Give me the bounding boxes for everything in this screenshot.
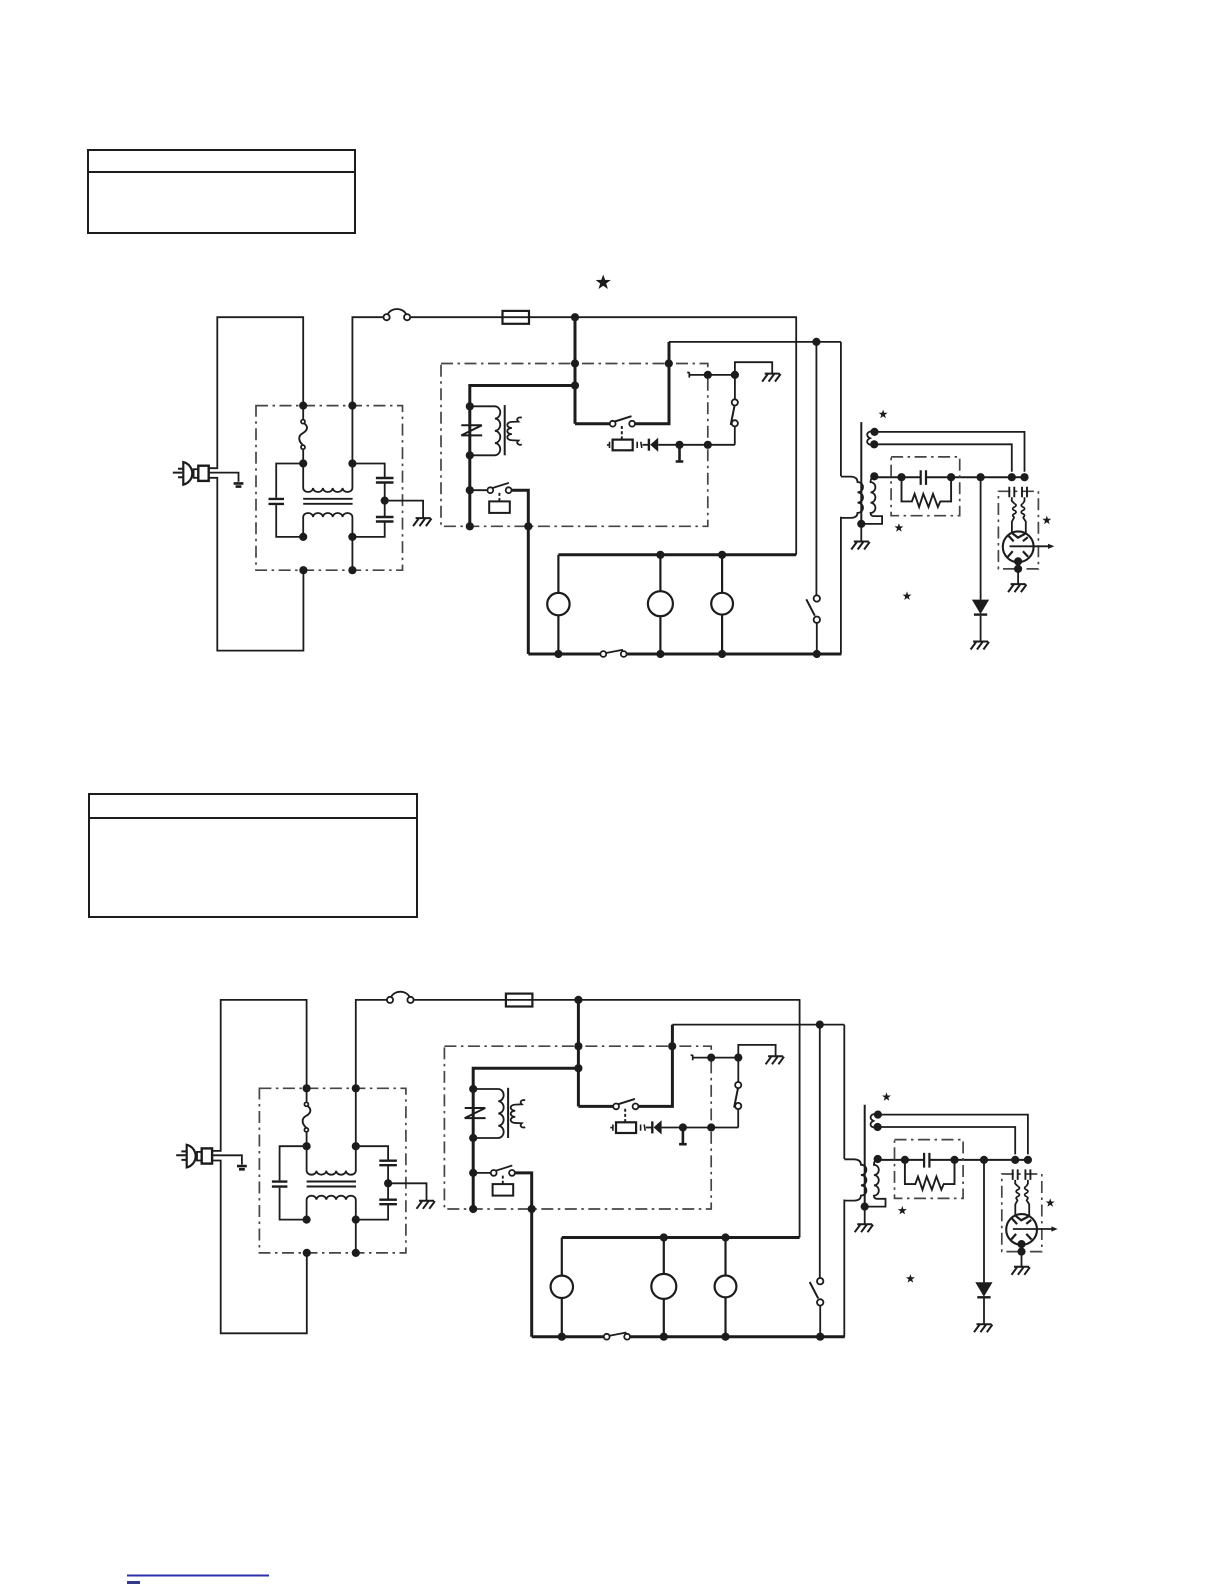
node door switch bottom (lower diagram) <box>816 1333 824 1341</box>
wire hot feed drop (lower diagram) <box>577 1000 580 1107</box>
wire interlock switch out <box>512 490 529 654</box>
node magnetron FA terminal <box>1020 473 1028 481</box>
AC plug body (lower diagram) <box>187 1145 196 1168</box>
turntable motor stub bottom <box>659 616 661 654</box>
node between C2 C3 <box>381 497 389 505</box>
low voltage transformer T2 primary <box>470 406 500 455</box>
node lamp1 bottom (lower diagram) <box>558 1333 566 1341</box>
fan motor stub top (lower diagram) <box>724 1238 726 1276</box>
node control box bottom L (lower diagram) <box>469 1205 477 1213</box>
wire cap midpoint to ground (lower diagram) <box>388 1183 426 1200</box>
magnetron antenna arrow <box>1010 544 1055 549</box>
feedthrough capacitor right <box>1022 487 1027 498</box>
node magnetron FA terminal (lower diagram) <box>1024 1156 1032 1164</box>
wire diode to monitor switch (lower diagram) <box>662 1127 739 1129</box>
wire lamp feed riser (lower diagram) <box>799 1000 801 1238</box>
HV transformer T1 core (lower diagram) <box>864 1105 866 1208</box>
cook switch contacts (lower diagram) <box>604 1333 630 1340</box>
connector at coil left (lower diagram) <box>610 1125 613 1131</box>
wire interlock terminal run (lower diagram) <box>693 1057 739 1059</box>
interlock relay RY1 coil box <box>489 501 510 513</box>
fan motor stub top <box>721 555 723 593</box>
low voltage transformer T2 primary (lower diagram) <box>473 1089 503 1138</box>
power relay RY2 contacts <box>610 416 635 426</box>
fan motor <box>711 593 733 615</box>
wire monitor switch to line <box>734 427 736 445</box>
star mark below cap box (lower diagram) <box>898 1206 907 1215</box>
node main line at relay tap (lower diagram) <box>574 996 582 1004</box>
connector interlock terminal <box>687 372 689 377</box>
node control box top R (lower diagram) <box>668 1042 676 1050</box>
AC plug prongs <box>173 469 184 478</box>
node interlock crossing <box>704 371 712 379</box>
node lamp2 top (lower diagram) <box>660 1233 668 1241</box>
wire coil to diode (lower diagram) <box>646 1127 652 1129</box>
wire core to ground (lower diagram) <box>864 1207 866 1224</box>
node choke top-right (lower diagram) <box>352 1142 360 1150</box>
thermal cutoff TCO (lower diagram) <box>303 1102 311 1132</box>
feedthrough capacitor left <box>1009 487 1014 498</box>
node interlock junction <box>731 371 739 379</box>
star mark near diode (lower diagram) <box>906 1274 915 1283</box>
wire lamp feed bus <box>558 553 796 556</box>
node interlock junction (lower diagram) <box>734 1054 742 1062</box>
line filter choke L1 core (lower diagram) <box>307 1182 356 1187</box>
line filter choke L1 top winding (lower diagram) <box>307 1146 356 1175</box>
connector at coil right <box>637 442 642 448</box>
HV transformer T1 secondary <box>861 477 882 524</box>
node filter input top <box>299 402 307 410</box>
star mark near T1 (lower diagram) <box>882 1092 891 1101</box>
capacitor C2 C3 branch wires <box>352 464 384 537</box>
wire LVT feed <box>470 386 575 527</box>
door sensing switch <box>806 595 820 623</box>
HV diode D2 <box>972 600 989 615</box>
wire to interlock relay switch <box>470 489 488 491</box>
wire fuseholder to corner <box>529 316 797 318</box>
door sensing switch (lower diagram) <box>810 1278 824 1306</box>
node between C2 C3 (lower diagram) <box>384 1179 392 1187</box>
wire HV diode drop (lower diagram) <box>983 1160 985 1282</box>
node monitor line crossing (lower diagram) <box>707 1123 715 1131</box>
interlock relay RY1 coil box (lower diagram) <box>493 1184 514 1196</box>
fan motor stub bottom <box>721 615 723 654</box>
magnetron antenna arrow (lower diagram) <box>1013 1226 1058 1231</box>
HV transformer T1 filament winding <box>867 431 874 444</box>
wire HV line left (lower diagram) <box>878 1159 1028 1161</box>
ground at HV transformer <box>851 542 869 550</box>
varistor VRS1 <box>461 425 482 435</box>
node magnetron F terminal (lower diagram) <box>1011 1156 1019 1164</box>
AC plug neck <box>194 469 199 478</box>
wire HV primary drop (lower diagram) <box>843 1025 845 1159</box>
wire filament line 1 <box>875 432 1025 472</box>
node filament lead 2 <box>870 440 878 448</box>
node filter input bottom <box>299 566 307 574</box>
line filter choke L1 top winding <box>303 464 352 493</box>
node control box bottom R <box>524 522 532 530</box>
node door switch tap <box>812 338 820 346</box>
node lamp3 top <box>718 551 726 559</box>
wire cutoff to choke node <box>302 449 304 463</box>
ground at HV diode <box>971 642 989 650</box>
node LVT primary top <box>466 402 474 410</box>
wire plug neutral lead to loop <box>209 478 304 651</box>
node control box bottom L <box>466 522 474 530</box>
wire plug earth lead <box>209 473 239 482</box>
node HV cap right (lower diagram) <box>950 1156 958 1164</box>
capacitor C1 plates (lower diagram) <box>272 1182 288 1187</box>
wire fuse to fuseholder (lower diagram) <box>414 999 506 1001</box>
turntable motor stub top (lower diagram) <box>663 1238 665 1274</box>
capacitor C1 branch wires (lower diagram) <box>280 1146 307 1219</box>
star mark below cap box <box>894 523 903 532</box>
capacitor C2 C3 branch wires (lower diagram) <box>356 1146 388 1219</box>
wire into chokes <box>1012 497 1025 503</box>
power relay RY2 link <box>621 426 623 439</box>
wire magnetron to ground <box>1017 561 1019 584</box>
interlock relay RY1 link (lower diagram) <box>502 1176 504 1184</box>
wire interlock terminal run <box>689 374 735 376</box>
star mark near magnetron (lower diagram) <box>1046 1198 1055 1207</box>
wire interlock to ground <box>735 362 772 375</box>
AC plug neck (lower diagram) <box>197 1152 202 1161</box>
bleeder resistor R1 (lower diagram) <box>905 1160 955 1190</box>
node choke top-left (lower diagram) <box>303 1142 311 1150</box>
wire plug earth lead (lower diagram) <box>212 1155 242 1164</box>
wire hot feed drop <box>574 317 577 424</box>
star mark near diode <box>903 591 912 600</box>
fuse holder box (lower diagram) <box>506 994 533 1007</box>
wire filament line 2 <box>874 444 1012 471</box>
filament choke right (lower diagram) <box>1025 1186 1028 1200</box>
feedthrough capacitor left (lower diagram) <box>1013 1169 1018 1180</box>
filament choke left (lower diagram) <box>1016 1186 1019 1200</box>
node control box top L <box>571 359 579 367</box>
node filament lead 2 (lower diagram) <box>874 1123 882 1131</box>
HV transformer T1 primary (lower diagram) <box>844 1159 866 1200</box>
node lamp3 bottom <box>718 650 726 658</box>
node hot at LVT tap <box>571 381 579 389</box>
node magnetron box edge <box>1014 565 1022 573</box>
noise filter unit box <box>256 406 403 571</box>
node lamp2 bottom <box>656 650 664 658</box>
earth ground at plug <box>234 483 244 486</box>
power relay RY2 coil box <box>613 440 633 451</box>
HV transformer T1 secondary (lower diagram) <box>865 1160 886 1207</box>
wire hot to relay contacts <box>575 422 610 425</box>
wire door switch to bus <box>816 623 818 654</box>
node choke top-left <box>299 459 307 467</box>
wire HV diode to ground (lower diagram) <box>983 1299 985 1325</box>
node filter neutral top <box>348 402 356 410</box>
node HV cap right <box>947 473 955 481</box>
temperature probe <box>676 445 684 462</box>
wire chokes to magnetron <box>1012 517 1026 533</box>
title box lower diagram <box>89 794 417 917</box>
capacitor C1 plates <box>269 499 285 504</box>
node filament lead 1 <box>870 428 878 436</box>
node lamp2 bottom (lower diagram) <box>660 1333 668 1341</box>
AC plug prongs (lower diagram) <box>176 1151 187 1160</box>
capacitor C3 plates (lower diagram) <box>379 1200 397 1205</box>
node temperature probe tap <box>675 441 683 449</box>
wire bottom bus right <box>627 653 842 656</box>
node magnetron F terminal <box>1008 473 1016 481</box>
magnetron anode vanes <box>1008 536 1028 557</box>
bleeder resistor R1 <box>902 477 952 507</box>
capacitor C2 plates <box>376 478 394 483</box>
low voltage transformer T2 core (lower diagram) <box>507 1088 509 1138</box>
node LVT primary top (lower diagram) <box>469 1085 477 1093</box>
wire HV primary return (lower diagram) <box>843 1200 845 1337</box>
connector at coil right (lower diagram) <box>641 1125 646 1131</box>
wire to interlock relay switch (lower diagram) <box>473 1172 491 1174</box>
wire fuse to fuseholder <box>410 316 502 318</box>
wire bottom bus right (lower diagram) <box>630 1335 845 1338</box>
capacitor C1 branch wires <box>276 464 303 537</box>
oven lamp <box>547 593 569 615</box>
connector at coil left <box>607 442 610 448</box>
noise filter unit box (lower diagram) <box>259 1088 406 1253</box>
footer link line <box>127 1575 269 1577</box>
line filter choke L1 core <box>303 499 352 504</box>
wire interlock switch out (lower diagram) <box>515 1173 532 1337</box>
fuse F1 (lower diagram) <box>387 992 414 1003</box>
star mark main (upper diagram) <box>596 275 611 290</box>
node lamp2 top <box>656 551 664 559</box>
wire magnetron to ground (lower diagram) <box>1021 1244 1023 1267</box>
ground at HV diode (lower diagram) <box>974 1324 992 1332</box>
node filter neutral top (lower diagram) <box>352 1084 360 1092</box>
power relay RY2 contacts (lower diagram) <box>613 1099 638 1109</box>
oven lamp (lower diagram) <box>551 1276 573 1298</box>
filament choke left <box>1013 504 1016 517</box>
connector interlock terminal (lower diagram) <box>691 1055 693 1060</box>
turntable motor stub top <box>659 555 661 591</box>
capacitor C2 plates (lower diagram) <box>379 1161 397 1166</box>
node hot at LVT tap (lower diagram) <box>574 1064 582 1072</box>
node HV secondary ground <box>857 520 865 528</box>
wire chokes to magnetron (lower diagram) <box>1015 1200 1029 1216</box>
node LVT primary bottom <box>466 451 474 459</box>
diode D1 <box>649 438 658 452</box>
node monitor line crossing <box>704 441 712 449</box>
HV capacitor plates <box>921 470 926 485</box>
node filter input bottom (lower diagram) <box>303 1249 311 1257</box>
wire filament line 1 (lower diagram) <box>878 1115 1028 1155</box>
wire lamp feed riser <box>795 317 797 555</box>
wire interlock to ground (lower diagram) <box>738 1045 775 1058</box>
footer text fragment <box>127 1581 140 1584</box>
node HV diode tap <box>977 473 985 481</box>
earth ground at plug (lower diagram) <box>237 1166 247 1169</box>
control unit box <box>441 364 708 527</box>
power relay RY2 coil box (lower diagram) <box>616 1122 636 1133</box>
line filter choke L1 bottom winding <box>303 513 352 537</box>
wire lamp feed bus (lower diagram) <box>562 1236 800 1239</box>
node control box top R <box>665 359 673 367</box>
node control box bottom R (lower diagram) <box>528 1205 536 1213</box>
ground at interlock (lower diagram) <box>766 1056 784 1064</box>
star mark near T1 <box>879 410 888 419</box>
wire HV feed top run <box>669 341 841 343</box>
oven lamp stub top (lower diagram) <box>561 1238 563 1276</box>
magnetron cathode (lower diagram) <box>1016 1216 1029 1220</box>
node choke bottom-left (lower diagram) <box>303 1216 311 1224</box>
HV capacitor unit box (lower diagram) <box>895 1140 964 1199</box>
ground at magnetron (lower diagram) <box>1012 1267 1030 1275</box>
node control box top L (lower diagram) <box>574 1042 582 1050</box>
low voltage transformer T2 core <box>504 405 506 455</box>
wire door switch to bus (lower diagram) <box>819 1306 821 1337</box>
wire HV diode drop <box>980 477 982 599</box>
node filter neutral bottom <box>348 566 356 574</box>
feedthrough capacitor right (lower diagram) <box>1025 1169 1030 1180</box>
wire LVT feed (lower diagram) <box>473 1068 578 1209</box>
node filter input top (lower diagram) <box>303 1084 311 1092</box>
node filament lead 1 (lower diagram) <box>874 1111 882 1119</box>
HV transformer T1 primary <box>841 477 863 518</box>
wire door switch drop <box>815 342 817 595</box>
wire into chokes (lower diagram) <box>1015 1180 1028 1186</box>
node choke bottom-right <box>348 533 356 541</box>
monitor switch contacts (lower diagram) <box>734 1060 741 1109</box>
node HV secondary out <box>870 472 878 480</box>
ground at filter (lower diagram) <box>417 1201 435 1209</box>
interlock relay RY1 contacts (lower diagram) <box>491 1166 515 1176</box>
wire relay contacts to HV feed <box>635 342 669 424</box>
wire monitor switch to line (lower diagram) <box>737 1109 739 1127</box>
magnetron cathode <box>1013 533 1026 537</box>
AC plug body <box>183 462 192 485</box>
AC plug cord block (lower diagram) <box>202 1148 212 1163</box>
wire HV line left <box>874 476 1024 478</box>
magnetron unit box <box>998 491 1038 569</box>
wire door switch drop (lower diagram) <box>819 1025 821 1278</box>
HV diode D2 (lower diagram) <box>975 1282 992 1297</box>
wire bottom bus left <box>528 653 600 656</box>
ground at magnetron <box>1008 584 1026 592</box>
node interlock crossing (lower diagram) <box>707 1054 715 1062</box>
oven lamp stub bottom (lower diagram) <box>561 1298 563 1337</box>
node door switch tap (lower diagram) <box>816 1021 824 1029</box>
HV capacitor plates (lower diagram) <box>924 1153 929 1168</box>
wire filter to fuse <box>352 317 383 405</box>
temperature probe (lower diagram) <box>679 1128 687 1145</box>
wire filter to fuse (lower diagram) <box>356 1000 387 1088</box>
fan motor stub bottom (lower diagram) <box>724 1297 726 1336</box>
node choke top-right <box>348 459 356 467</box>
node door switch bottom <box>813 650 821 658</box>
node choke bottom-left <box>299 533 307 541</box>
line filter choke L1 bottom winding (lower diagram) <box>307 1196 356 1220</box>
HV capacitor unit box <box>891 457 960 516</box>
power relay RY2 link (lower diagram) <box>624 1109 626 1122</box>
node magnetron box edge (lower diagram) <box>1017 1248 1025 1256</box>
wire fuseholder to corner (lower diagram) <box>532 999 800 1001</box>
turntable motor stub bottom (lower diagram) <box>663 1299 665 1337</box>
node magnetron cathode bottom <box>1014 557 1022 565</box>
node LVT primary bottom (lower diagram) <box>469 1134 477 1142</box>
magnetron anode vanes (lower diagram) <box>1011 1218 1031 1239</box>
wire HV primary return <box>840 517 842 654</box>
magnetron V1 body <box>1003 531 1034 562</box>
interlock relay RY1 contacts <box>487 483 511 493</box>
node HV secondary ground (lower diagram) <box>861 1203 869 1211</box>
varistor VRS1 (lower diagram) <box>465 1108 486 1118</box>
wire HV primary drop <box>840 342 842 476</box>
fan motor (lower diagram) <box>715 1276 737 1298</box>
turntable motor <box>648 591 673 616</box>
wire diode to monitor switch <box>658 444 735 446</box>
wire neutral inside filter (lower diagram) <box>355 1088 357 1253</box>
wire neutral inside filter <box>351 406 353 571</box>
node HV cap left <box>897 473 905 481</box>
turntable motor (lower diagram) <box>651 1274 676 1299</box>
wire hot to relay contacts (lower diagram) <box>578 1105 613 1108</box>
ground at filter <box>413 518 431 526</box>
filament choke right <box>1021 504 1024 517</box>
wire bottom bus left (lower diagram) <box>532 1335 604 1338</box>
node main line at relay tap <box>571 313 579 321</box>
control unit box (lower diagram) <box>444 1046 711 1209</box>
node lamp3 bottom (lower diagram) <box>721 1333 729 1341</box>
node magnetron cathode bottom (lower diagram) <box>1017 1240 1025 1248</box>
node HV secondary out (lower diagram) <box>874 1155 882 1163</box>
ground at interlock <box>762 374 780 382</box>
wire filament line 2 (lower diagram) <box>878 1127 1016 1154</box>
fuse F1 <box>384 309 411 320</box>
wire HV feed top run (lower diagram) <box>672 1024 844 1026</box>
wire plug hot lead to loop (lower diagram) <box>212 1000 307 1151</box>
wire cap midpoint to ground <box>385 501 423 518</box>
diode D1 (lower diagram) <box>652 1120 661 1134</box>
magnetron V1 body (lower diagram) <box>1006 1214 1037 1245</box>
title box upper diagram <box>88 150 355 233</box>
node interlock tap <box>466 486 474 494</box>
wire cutoff to choke node (lower diagram) <box>306 1132 308 1146</box>
wire core to ground <box>860 524 862 541</box>
monitor switch contacts <box>731 377 738 426</box>
node temperature probe tap (lower diagram) <box>679 1123 687 1131</box>
node HV diode tap (lower diagram) <box>980 1156 988 1164</box>
ground at HV transformer (lower diagram) <box>855 1224 873 1232</box>
node lamp1 bottom <box>554 650 562 658</box>
wire plug hot lead to loop <box>209 317 304 468</box>
HV transformer T1 core <box>860 422 862 525</box>
thermal cutoff TCO <box>299 420 307 450</box>
wire to thermal cutoff (lower diagram) <box>306 1088 308 1102</box>
wire coil to diode <box>643 444 649 446</box>
interlock relay RY1 link <box>498 493 500 501</box>
oven lamp stub bottom <box>557 615 559 654</box>
oven lamp stub top <box>557 555 559 593</box>
cook switch contacts <box>600 650 626 657</box>
capacitor C3 plates <box>376 517 394 522</box>
node choke bottom-right (lower diagram) <box>352 1216 360 1224</box>
wire plug neutral lead to loop (lower diagram) <box>212 1161 307 1334</box>
star mark near magnetron <box>1042 516 1051 525</box>
low voltage transformer T2 secondary <box>507 417 522 444</box>
wire HV diode to ground <box>980 616 982 642</box>
AC plug cord block <box>198 466 208 481</box>
low voltage transformer T2 secondary (lower diagram) <box>511 1100 526 1127</box>
node lamp3 top (lower diagram) <box>721 1233 729 1241</box>
node HV cap left (lower diagram) <box>901 1156 909 1164</box>
magnetron unit box (lower diagram) <box>1002 1174 1042 1252</box>
wire relay contacts to HV feed (lower diagram) <box>638 1025 672 1107</box>
